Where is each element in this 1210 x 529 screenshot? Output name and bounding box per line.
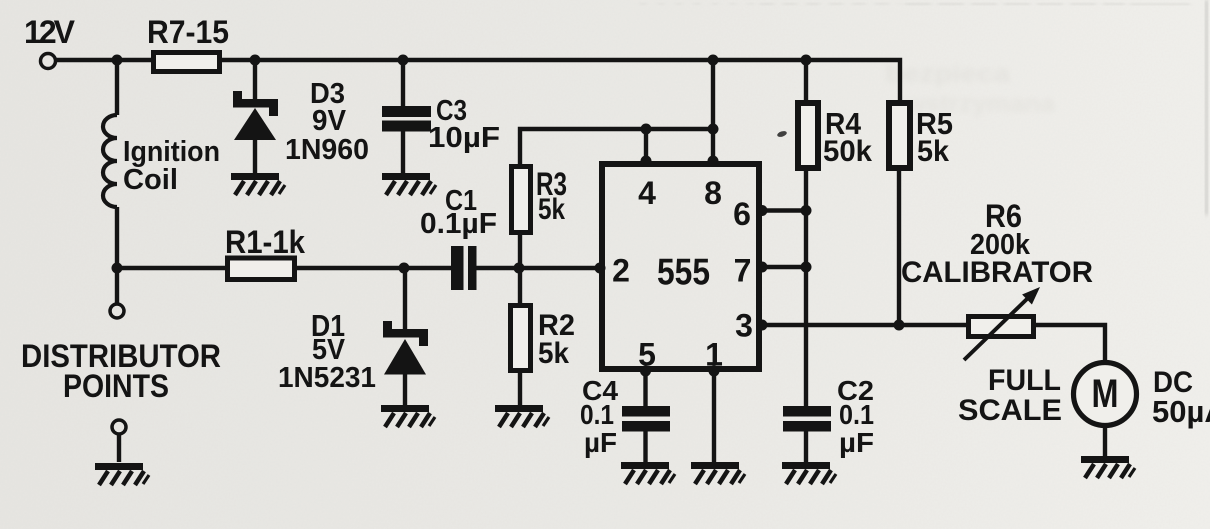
svg-text:POINTS: POINTS bbox=[63, 368, 169, 404]
svg-text:5: 5 bbox=[638, 337, 656, 373]
svg-text:6: 6 bbox=[733, 196, 751, 232]
svg-text:5k: 5k bbox=[538, 337, 569, 370]
svg-text:R7-15: R7-15 bbox=[147, 14, 229, 50]
svg-text:0.1: 0.1 bbox=[839, 399, 874, 430]
svg-text:2: 2 bbox=[612, 253, 630, 289]
svg-text:12V: 12V bbox=[24, 14, 76, 50]
svg-text:1: 1 bbox=[705, 337, 723, 373]
svg-text:R1-1k: R1-1k bbox=[225, 224, 305, 260]
svg-text:7: 7 bbox=[734, 253, 752, 289]
svg-text:FULL: FULL bbox=[988, 364, 1061, 397]
svg-text:9V: 9V bbox=[312, 105, 347, 137]
svg-text:CALIBRATOR: CALIBRATOR bbox=[901, 256, 1093, 289]
svg-text:µF: µF bbox=[584, 427, 617, 458]
svg-text:1N960: 1N960 bbox=[285, 134, 369, 166]
svg-text:10µF: 10µF bbox=[428, 122, 500, 154]
svg-text:5k: 5k bbox=[538, 193, 565, 226]
svg-text:bezpieca: bezpieca bbox=[885, 60, 1011, 88]
svg-text:1N5231: 1N5231 bbox=[278, 362, 376, 394]
svg-text:Coil: Coil bbox=[123, 164, 178, 196]
svg-text:3: 3 bbox=[735, 308, 753, 344]
svg-text:SCALE: SCALE bbox=[958, 394, 1062, 427]
svg-text:0.1: 0.1 bbox=[580, 399, 614, 430]
svg-text:M: M bbox=[1092, 372, 1119, 416]
svg-text:50k: 50k bbox=[823, 135, 872, 168]
svg-text:4: 4 bbox=[638, 175, 656, 211]
svg-text:555: 555 bbox=[657, 252, 710, 293]
svg-text:8: 8 bbox=[704, 175, 722, 211]
svg-text:µF: µF bbox=[839, 427, 874, 458]
svg-text:50µA: 50µA bbox=[1152, 394, 1210, 429]
svg-text:5k: 5k bbox=[917, 135, 949, 168]
svg-text:0.1µF: 0.1µF bbox=[420, 208, 497, 240]
